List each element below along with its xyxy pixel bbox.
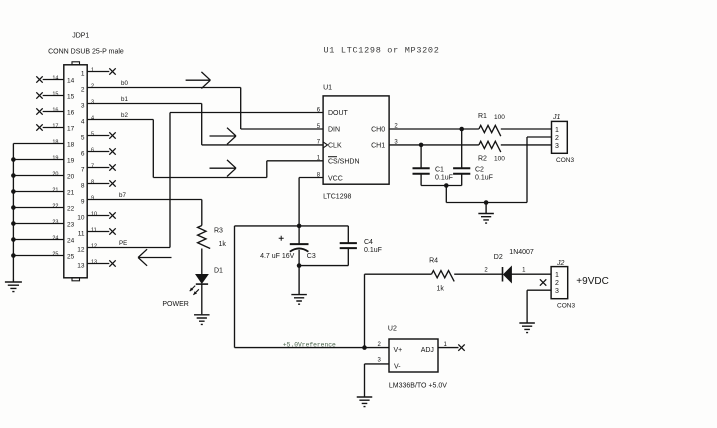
wire D2 anode to J2 pin1 bbox=[512, 273, 552, 275]
connector J1 body bbox=[552, 121, 568, 153]
svg-text:100: 100 bbox=[494, 156, 505, 163]
net label b2 bbox=[121, 112, 128, 119]
JDP1 pin 6 stub (no connect) bbox=[87, 148, 116, 155]
svg-text:LTC1298: LTC1298 bbox=[323, 194, 351, 201]
U2 pin number 3 bbox=[378, 358, 382, 364]
svg-text:19: 19 bbox=[52, 156, 58, 162]
U1 pin name VCC bbox=[328, 176, 343, 183]
net label +5.0Vreference bbox=[283, 341, 336, 348]
U1 pin name CH1 bbox=[371, 142, 385, 149]
svg-text:0.1uF: 0.1uF bbox=[435, 175, 453, 182]
wire R3 to D1 bbox=[201, 249, 203, 275]
svg-text:D2: D2 bbox=[494, 254, 503, 261]
connector JDP1 label bbox=[72, 32, 89, 39]
svg-text:14: 14 bbox=[67, 77, 75, 84]
wire PE: JDP1 pin12 to U1 DOUT bbox=[87, 113, 323, 248]
svg-text:15: 15 bbox=[52, 92, 58, 98]
svg-text:12: 12 bbox=[91, 244, 97, 250]
svg-text:20: 20 bbox=[67, 173, 75, 180]
diode D2 1N4007 bbox=[503, 267, 512, 283]
svg-text:DOUT: DOUT bbox=[328, 110, 349, 117]
R1 reference label bbox=[478, 113, 487, 120]
junction node ground tap bbox=[484, 200, 489, 205]
wire b2: JDP1 pin4 to U1 CS/SHDN bbox=[87, 120, 323, 178]
svg-text:VCC: VCC bbox=[328, 176, 343, 183]
svg-text:22: 22 bbox=[67, 205, 75, 212]
svg-text:R3: R3 bbox=[214, 228, 223, 235]
R2 reference label bbox=[478, 156, 487, 163]
ground symbol below C3 bbox=[291, 266, 307, 305]
svg-text:C1: C1 bbox=[435, 167, 444, 174]
capacitor C4 bbox=[340, 226, 357, 266]
D2 pin number 2 bbox=[484, 268, 488, 274]
C1 reference label bbox=[435, 167, 444, 174]
JDP1 pin 14 stub (no connect) bbox=[36, 76, 64, 83]
R4 reference label bbox=[429, 258, 438, 265]
svg-text:R2: R2 bbox=[478, 156, 487, 163]
svg-text:0.1uF: 0.1uF bbox=[475, 175, 493, 182]
svg-text:17: 17 bbox=[52, 124, 58, 130]
U1 pin number 6 (DOUT) bbox=[317, 107, 321, 113]
net label b0 bbox=[121, 80, 128, 87]
D2 reference label bbox=[494, 254, 503, 261]
svg-text:U2: U2 bbox=[388, 326, 397, 333]
U2 pin number 2 bbox=[378, 342, 382, 348]
direction arrow right (middle) bbox=[210, 128, 237, 145]
wire D1 to ground bbox=[201, 284, 203, 314]
C3 value 4.7 uF 16V bbox=[260, 253, 295, 260]
svg-text:R1: R1 bbox=[478, 113, 487, 120]
D2 value 1N4007 bbox=[509, 249, 534, 256]
svg-text:5: 5 bbox=[81, 135, 85, 142]
JDP1 pin 15 stub (no connect) bbox=[36, 92, 64, 99]
U1 pin name CS/SHDN with overline on CS bbox=[328, 157, 360, 166]
U1 pin name DIN bbox=[328, 127, 340, 134]
svg-text:10: 10 bbox=[91, 212, 97, 218]
svg-text:C4: C4 bbox=[364, 239, 373, 246]
svg-text:18: 18 bbox=[67, 141, 75, 148]
JDP1 pin 2 number bbox=[91, 84, 94, 90]
svg-text:21: 21 bbox=[52, 188, 58, 194]
C4 reference label bbox=[364, 239, 373, 246]
wire +5V rail left drop bbox=[234, 226, 236, 348]
svg-text:6: 6 bbox=[91, 148, 94, 154]
svg-text:17: 17 bbox=[67, 125, 75, 132]
R4 value 1k bbox=[437, 286, 445, 293]
svg-text:25: 25 bbox=[67, 253, 75, 260]
resistor R2 bbox=[479, 141, 501, 152]
svg-text:4: 4 bbox=[81, 119, 85, 126]
JDP1 pin 20 wire to ground bus bbox=[13, 172, 63, 178]
svg-text:+9VDC: +9VDC bbox=[576, 276, 609, 287]
J2 pin2 no-connect X bbox=[540, 279, 546, 285]
svg-text:2: 2 bbox=[91, 84, 94, 90]
svg-text:11: 11 bbox=[78, 231, 85, 238]
U2 pin number 1 bbox=[444, 342, 448, 348]
D1 LED emission arrows bbox=[190, 286, 199, 295]
svg-text:24: 24 bbox=[67, 237, 75, 244]
svg-text:1k: 1k bbox=[437, 286, 445, 293]
svg-text:13: 13 bbox=[91, 260, 97, 266]
svg-text:2: 2 bbox=[555, 135, 559, 142]
JDP1 pin 19 wire to ground bus bbox=[13, 156, 63, 162]
junction node C3 bottom bbox=[297, 263, 302, 268]
svg-text:JDP1: JDP1 bbox=[72, 32, 89, 39]
wire C4 bottom to C3 bottom bbox=[299, 265, 348, 267]
wire CH1 from U1 to R2 bbox=[389, 144, 479, 146]
wire R1 to J1 pin1 bbox=[501, 128, 552, 130]
svg-text:J2: J2 bbox=[556, 260, 565, 267]
C2 reference label bbox=[475, 167, 484, 174]
JDP1 pin 1 stub (no connect) bbox=[87, 68, 116, 75]
J1 reference label bbox=[552, 114, 561, 121]
svg-text:U1: U1 bbox=[323, 85, 332, 92]
svg-text:DIN: DIN bbox=[328, 127, 340, 134]
svg-text:b7: b7 bbox=[119, 192, 126, 199]
wire R2 to J1 pin3 bbox=[501, 144, 552, 146]
JDP1 pin 24 wire to ground bus bbox=[13, 236, 63, 242]
svg-text:25: 25 bbox=[52, 252, 58, 258]
svg-text:1k: 1k bbox=[219, 241, 227, 248]
svg-text:J1: J1 bbox=[552, 114, 561, 121]
net label b7 bbox=[119, 192, 126, 199]
direction arrow right (top) bbox=[186, 72, 211, 89]
svg-text:8: 8 bbox=[91, 180, 94, 186]
svg-text:R4: R4 bbox=[429, 258, 438, 265]
svg-text:7: 7 bbox=[91, 164, 94, 170]
svg-text:3: 3 bbox=[555, 143, 559, 150]
J2 reference label bbox=[556, 260, 565, 267]
wire R4 to D2 cathode bbox=[454, 273, 502, 275]
svg-text:2: 2 bbox=[555, 280, 559, 287]
svg-text:1: 1 bbox=[555, 272, 559, 279]
JDP1 pin 21 wire to ground bus bbox=[13, 188, 63, 194]
wire b7: JDP1 pin9 to resistor R3 bbox=[87, 200, 202, 226]
svg-text:V+: V+ bbox=[394, 347, 403, 354]
D2 pin number 1 bbox=[522, 268, 526, 274]
wire C1-C2 bottoms bbox=[421, 185, 462, 187]
JDP1 inside pin numbers 1-13 bbox=[77, 71, 85, 270]
wire b1: JDP1 pin3 to U1 CLK bbox=[87, 104, 323, 145]
ground bus wire left of JDP1 bbox=[12, 144, 14, 280]
connector JDP1 body bbox=[64, 62, 87, 281]
svg-text:22: 22 bbox=[52, 204, 58, 210]
svg-text:7: 7 bbox=[81, 167, 85, 174]
ground bus junction dots pins 19-25 bbox=[11, 157, 16, 258]
svg-text:1: 1 bbox=[91, 68, 94, 74]
JDP1 pin 10 stub (no connect) bbox=[87, 212, 116, 219]
JDP1 pin 22 wire to ground bus bbox=[13, 204, 63, 210]
svg-text:C3: C3 bbox=[307, 253, 316, 260]
D1 reference label bbox=[214, 268, 223, 275]
wire caps to analog ground run bbox=[446, 186, 527, 203]
U1 pin number 2 (CH0) bbox=[394, 124, 398, 130]
capacitor C2 bbox=[453, 129, 470, 186]
svg-text:6: 6 bbox=[81, 151, 85, 158]
C1 value 0.1uF bbox=[435, 175, 453, 182]
svg-text:CLK: CLK bbox=[328, 143, 342, 150]
U2 ADJ no-connect X bbox=[458, 344, 464, 350]
JDP1 pin 9 number bbox=[91, 196, 94, 202]
svg-text:3: 3 bbox=[81, 103, 85, 110]
JDP1 pin 18 wire to ground bus bbox=[13, 140, 63, 146]
svg-text:23: 23 bbox=[67, 221, 75, 228]
junction node cap bottoms bbox=[444, 183, 449, 188]
svg-text:V-: V- bbox=[394, 363, 401, 370]
svg-text:1N4007: 1N4007 bbox=[509, 249, 534, 256]
wire +5V rail top bbox=[235, 225, 349, 227]
svg-text:5: 5 bbox=[91, 132, 94, 138]
svg-text:CONN DSUB 25-P male: CONN DSUB 25-P male bbox=[48, 49, 124, 56]
U1 pin name CH0 bbox=[371, 127, 385, 134]
svg-text:1: 1 bbox=[81, 71, 85, 78]
U2 pin name ADJ bbox=[421, 347, 434, 354]
svg-text:D1: D1 bbox=[214, 268, 223, 275]
U1 pin number 8 (VCC) bbox=[317, 172, 321, 178]
JDP1 pin 12 number bbox=[91, 244, 97, 250]
net label b1 bbox=[121, 96, 128, 103]
ground symbol below bus bbox=[5, 279, 22, 292]
svg-text:b1: b1 bbox=[121, 96, 128, 103]
wire J2 pin3 to ground bbox=[527, 290, 551, 322]
direction arrow left (PE) bbox=[138, 249, 171, 266]
JDP1 pin 13 stub (no connect) bbox=[87, 260, 116, 267]
svg-text:16: 16 bbox=[67, 109, 75, 116]
resistor R4 bbox=[432, 271, 455, 282]
net label PE bbox=[119, 240, 127, 247]
wire CH0 from U1 to R1 bbox=[389, 128, 479, 130]
svg-text:16: 16 bbox=[52, 108, 58, 114]
capacitor C3 polarized 4.7uF bbox=[279, 226, 309, 266]
J1 value label CON3 bbox=[556, 157, 574, 164]
U1 pin number 5 (DIN) bbox=[317, 124, 321, 130]
junction node VCC/C3 on rail bbox=[297, 224, 302, 229]
U1 value label LTC1298 bbox=[323, 194, 351, 201]
connector J2 body bbox=[551, 267, 568, 299]
svg-text:11: 11 bbox=[91, 228, 97, 234]
U1 pin number 7 (CLK) bbox=[317, 140, 321, 146]
op-amp U1 body (LTC1298 ADC) bbox=[323, 96, 389, 184]
R2 value 100 bbox=[494, 156, 505, 163]
ground symbol below D1 bbox=[194, 314, 210, 324]
svg-text:b2: b2 bbox=[121, 112, 128, 119]
svg-text:LM336B/TO +5.0V: LM336B/TO +5.0V bbox=[389, 383, 447, 390]
svg-text:ADJ: ADJ bbox=[421, 347, 434, 354]
transistor U2 body (LM336 reference) bbox=[389, 339, 438, 372]
wire J1 pin2 to ground run bbox=[527, 137, 552, 203]
resistor R1 bbox=[479, 125, 501, 136]
svg-text:18: 18 bbox=[52, 140, 58, 146]
svg-text:15: 15 bbox=[67, 93, 75, 100]
svg-text:4: 4 bbox=[91, 116, 94, 122]
C3 reference label bbox=[307, 253, 316, 260]
R1 value 100 bbox=[494, 114, 505, 121]
svg-text:8: 8 bbox=[81, 183, 85, 190]
wire U2 ADJ to no-connect bbox=[438, 347, 459, 349]
J2 pin numbers 1 2 3 bbox=[555, 272, 559, 295]
ground symbol below U2 bbox=[357, 396, 373, 407]
svg-text:C2: C2 bbox=[475, 167, 484, 174]
svg-text:10: 10 bbox=[77, 215, 85, 222]
U1 pin number 1 (CS) bbox=[317, 156, 321, 162]
JDP1 pin 17 stub (no connect) bbox=[36, 124, 64, 131]
C4 value 0.1uF bbox=[364, 247, 382, 254]
JDP1 pin 11 stub (no connect) bbox=[87, 228, 116, 235]
svg-text:POWER: POWER bbox=[162, 301, 188, 308]
svg-text:1: 1 bbox=[555, 127, 559, 134]
direction arrow right (lower) bbox=[210, 160, 237, 177]
svg-text:0.1uF: 0.1uF bbox=[364, 247, 382, 254]
U2 pin name V+ bbox=[394, 347, 403, 354]
U1 pin name CLK with clock wedge bbox=[323, 142, 342, 150]
JDP1 pin 5 stub (no connect) bbox=[87, 132, 116, 139]
J2 value label CON3 bbox=[557, 303, 575, 310]
U1 reference label bbox=[323, 85, 332, 92]
svg-text:CH0: CH0 bbox=[371, 127, 385, 134]
U1 pin number 3 (CH1) bbox=[394, 139, 398, 145]
diode D1 LED bbox=[196, 274, 208, 284]
U2 reference label bbox=[388, 326, 397, 333]
U1 pin name DOUT bbox=[328, 110, 349, 117]
svg-text:2: 2 bbox=[81, 87, 85, 94]
svg-text:12: 12 bbox=[77, 247, 85, 254]
JDP1 pin 16 stub (no connect) bbox=[36, 108, 64, 115]
+9VDC label bbox=[576, 276, 609, 287]
svg-text:9: 9 bbox=[91, 196, 94, 202]
heading U1 LTC1298 or MP3202 bbox=[324, 46, 440, 56]
connector JDP1 title CONN DSUB 25-P male bbox=[48, 49, 124, 56]
wire U2 V- to ground bbox=[365, 364, 390, 396]
capacitor C1 bbox=[413, 145, 430, 186]
resistor R3 bbox=[198, 226, 211, 249]
svg-text:CS/SHDN: CS/SHDN bbox=[328, 159, 360, 166]
JDP1 pin 7 stub (no connect) bbox=[87, 164, 116, 171]
JDP1 inside pin numbers 14-25 bbox=[67, 77, 75, 260]
wire +5V node to R4 bbox=[365, 274, 432, 347]
wire +5.0V reference line bbox=[235, 347, 390, 349]
svg-text:4.7 uF 16V: 4.7 uF 16V bbox=[260, 253, 295, 260]
wire b0: JDP1 pin2 to U1 DIN bbox=[87, 88, 323, 130]
svg-text:CON3: CON3 bbox=[557, 303, 575, 310]
svg-text:21: 21 bbox=[67, 189, 75, 196]
JDP1 pin 3 number bbox=[91, 100, 94, 106]
svg-text:9: 9 bbox=[81, 199, 85, 206]
svg-text:3: 3 bbox=[555, 288, 559, 295]
svg-text:24: 24 bbox=[52, 236, 58, 242]
JDP1 pin 25 wire to ground bus bbox=[13, 252, 63, 258]
svg-text:PE: PE bbox=[119, 240, 127, 247]
svg-text:14: 14 bbox=[52, 76, 58, 82]
POWER label bbox=[162, 301, 188, 308]
junction node CH1/C1 bbox=[419, 143, 424, 148]
junction node R4/U2/+5V bbox=[362, 345, 367, 350]
U2 value label LM336B/TO +5.0V bbox=[389, 383, 447, 390]
R3 reference label bbox=[214, 228, 223, 235]
JDP1 pin 23 wire to ground bus bbox=[13, 220, 63, 226]
svg-text:CON3: CON3 bbox=[556, 157, 574, 164]
svg-text:19: 19 bbox=[67, 157, 75, 164]
svg-text:23: 23 bbox=[52, 220, 58, 226]
svg-text:20: 20 bbox=[52, 172, 58, 178]
U1 VCC wire to +5V rail bbox=[299, 178, 323, 226]
R3 value 1k bbox=[219, 241, 227, 248]
svg-text:U1 LTC1298 or MP3202: U1 LTC1298 or MP3202 bbox=[324, 46, 440, 56]
svg-text:100: 100 bbox=[494, 114, 505, 121]
svg-text:CH1: CH1 bbox=[371, 142, 385, 149]
ground symbol (output filter) bbox=[478, 203, 494, 224]
svg-text:+5.0Vreference: +5.0Vreference bbox=[283, 341, 336, 348]
J1 pin numbers 1 2 3 bbox=[555, 127, 559, 150]
svg-text:13: 13 bbox=[77, 263, 85, 270]
JDP1 pin 4 number bbox=[91, 116, 94, 122]
ground symbol below J2 bbox=[519, 322, 535, 333]
C2 value 0.1uF bbox=[475, 175, 493, 182]
svg-text:b0: b0 bbox=[121, 80, 128, 87]
svg-text:3: 3 bbox=[91, 100, 94, 106]
junction node CH0/C2 bbox=[459, 127, 464, 132]
U2 pin name V- bbox=[394, 363, 401, 370]
JDP1 pin 8 stub (no connect) bbox=[87, 180, 116, 187]
